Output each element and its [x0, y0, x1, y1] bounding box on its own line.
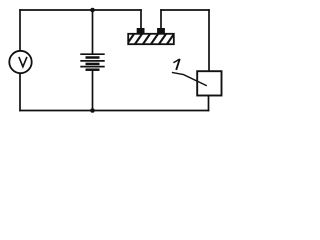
wire: left vertical [19, 9, 21, 111]
label 1 (callout digit) [173, 59, 179, 70]
junction dot: battery to top wire [90, 8, 95, 13]
wiper contact right [157, 28, 165, 34]
wire: right vertical lower [208, 95, 210, 111]
voltmeter PV [9, 51, 31, 73]
battery GB: bottom stub wire [92, 70, 94, 111]
wire: top-left horizontal [19, 9, 142, 11]
leader line from label 1 into box [172, 72, 207, 85]
wire: bottom horizontal [19, 110, 209, 112]
junction dot: battery to bottom wire [90, 108, 95, 113]
wire: right vertical upper [208, 9, 210, 71]
battery GB: plates [80, 54, 104, 69]
wiper contact left [137, 28, 145, 34]
wire: riser from right wiper [160, 9, 162, 28]
wire: drop to left wiper [140, 9, 142, 28]
battery GB: top stub wire [92, 10, 94, 54]
wire: top-right horizontal [160, 9, 210, 11]
rheostat track (hatched) [126, 33, 183, 45]
load box 1 [197, 71, 221, 95]
